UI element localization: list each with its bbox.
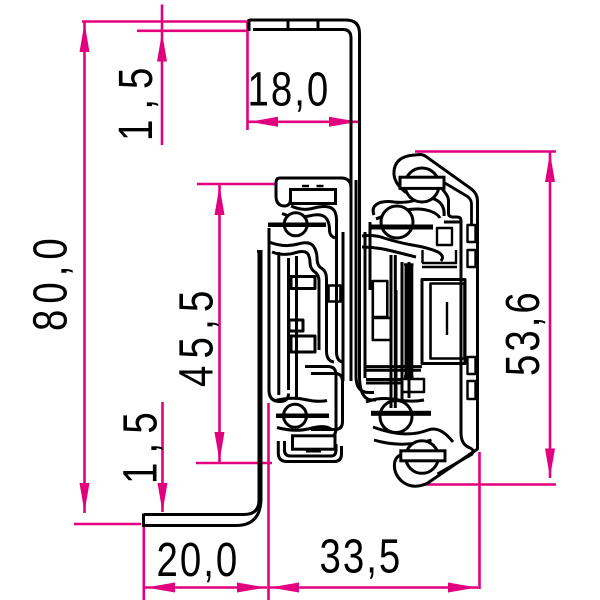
svg-text:33,5: 33,5 [320,531,403,584]
svg-text:18,0: 18,0 [248,64,331,117]
svg-text:80,0: 80,0 [25,232,78,331]
svg-text:45,5: 45,5 [171,283,224,387]
svg-text:20,0: 20,0 [157,534,240,587]
svg-text:53,6: 53,6 [497,289,550,376]
svg-text:1,5: 1,5 [110,58,163,141]
svg-text:1,5: 1,5 [115,403,168,484]
